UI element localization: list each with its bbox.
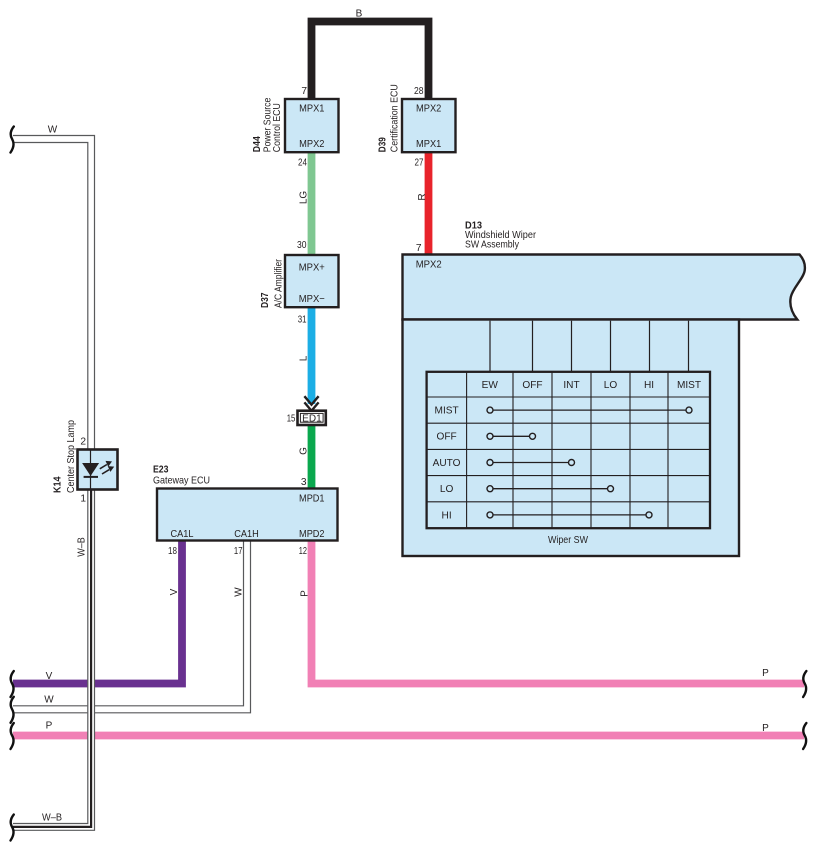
wire B black bus D44 pin7 to D39 pin28 — [312, 22, 429, 102]
svg-text:P: P — [46, 721, 53, 732]
svg-text:7: 7 — [301, 86, 307, 97]
svg-text:L: L — [299, 355, 310, 361]
svg-text:G: G — [299, 447, 310, 455]
svg-text:EW: EW — [482, 380, 499, 391]
svg-text:27: 27 — [415, 158, 424, 169]
svg-text:SW Assembly: SW Assembly — [465, 240, 520, 251]
svg-text:INT: INT — [563, 380, 579, 391]
svg-text:LG: LG — [299, 191, 310, 205]
svg-text:MPX2: MPX2 — [416, 260, 442, 271]
wire V E23 pin18 to left edge — [13, 540, 182, 684]
svg-text:MPX2: MPX2 — [299, 139, 325, 150]
wire W E23 pin17 to left edge — [13, 541, 247, 709]
svg-text:B: B — [356, 9, 363, 20]
svg-text:MIST: MIST — [435, 406, 459, 417]
svg-text:Wiper SW: Wiper SW — [548, 535, 588, 546]
table header labels — [482, 380, 701, 391]
break squiggle right P1 — [803, 671, 806, 697]
svg-text:W–B: W–B — [77, 537, 88, 557]
switch contact row HI — [487, 512, 652, 518]
svg-text:W: W — [234, 587, 245, 597]
table row labels — [433, 406, 461, 522]
connector D44 Power Source Control ECU — [285, 99, 339, 152]
switch contact row OFF — [487, 433, 536, 439]
svg-text:E23: E23 — [153, 464, 169, 476]
svg-text:HI: HI — [644, 380, 654, 391]
break squiggle left V — [11, 671, 14, 697]
break squiggle left W-B — [11, 815, 14, 841]
connector D39 Certification ECU — [402, 99, 456, 152]
svg-text:Certification ECU: Certification ECU — [390, 84, 401, 152]
svg-text:17: 17 — [234, 546, 243, 557]
svg-text:30: 30 — [297, 240, 307, 251]
svg-text:K14: K14 — [52, 476, 64, 493]
svg-text:Gateway ECU: Gateway ECU — [153, 476, 210, 487]
svg-text:MIST: MIST — [677, 380, 701, 391]
wire LG D44 pin24 to D37 pin30 — [308, 150, 316, 257]
svg-text:CA1H: CA1H — [234, 529, 259, 540]
wire R D39 pin27 to D13 pin7 — [425, 150, 433, 257]
connector D37 A/C Amplifier — [285, 255, 339, 307]
switch contact row MIST — [487, 407, 692, 413]
chevron arrows into ED1 — [304, 396, 318, 404]
svg-text:HI: HI — [442, 510, 452, 521]
svg-text:MPX2: MPX2 — [416, 104, 442, 115]
LED symbol in K14 — [82, 463, 99, 476]
wire G ED1 to E23 pin3 — [308, 424, 316, 490]
svg-text:AUTO: AUTO — [433, 458, 461, 469]
svg-text:7: 7 — [416, 243, 422, 254]
svg-text:P: P — [762, 668, 769, 679]
break squiggle right P2 — [803, 723, 806, 749]
svg-text:A/C Amplifier: A/C Amplifier — [274, 259, 285, 308]
connector E23 Gateway ECU — [157, 489, 338, 541]
svg-text:P: P — [300, 590, 311, 597]
svg-text:P: P — [762, 723, 769, 734]
internal connector lines to wiper switch — [490, 321, 689, 372]
svg-text:ED1: ED1 — [302, 413, 322, 424]
break squiggle left W top — [11, 127, 14, 153]
svg-text:18: 18 — [168, 546, 177, 557]
svg-text:D37: D37 — [259, 292, 271, 308]
connector K14 Center Stop Lamp — [78, 450, 118, 490]
svg-text:V: V — [169, 588, 180, 595]
break squiggle left P — [11, 723, 14, 749]
wire P E23 pin12 to right edge — [312, 540, 805, 684]
svg-text:MPX−: MPX− — [299, 294, 325, 305]
svg-text:MPX+: MPX+ — [299, 263, 325, 274]
connector ED1 — [298, 411, 326, 425]
svg-text:24: 24 — [298, 158, 307, 169]
svg-text:MPX1: MPX1 — [416, 139, 442, 150]
svg-text:Center Stop Lamp: Center Stop Lamp — [66, 420, 77, 493]
svg-text:LO: LO — [604, 380, 618, 391]
svg-text:LO: LO — [440, 484, 454, 495]
wire L D37 pin31 to ED1 — [308, 305, 316, 404]
wire P full width bus — [13, 732, 804, 740]
svg-text:OFF: OFF — [522, 380, 542, 391]
svg-text:W–B: W–B — [42, 813, 62, 824]
component box D13 body — [403, 320, 740, 557]
svg-text:MPD2: MPD2 — [299, 529, 325, 540]
svg-text:OFF: OFF — [437, 432, 457, 443]
break squiggle left W — [11, 697, 14, 723]
switch contact row LO — [487, 486, 614, 492]
svg-text:MPD1: MPD1 — [299, 494, 325, 505]
svg-text:MPX1: MPX1 — [299, 104, 325, 115]
svg-text:12: 12 — [299, 546, 307, 557]
svg-text:W: W — [48, 125, 58, 136]
wire through K14 — [90, 450, 92, 489]
connector strip D13 with torn edge — [403, 255, 805, 320]
wiper switch table — [427, 372, 710, 528]
svg-text:CA1L: CA1L — [171, 529, 194, 540]
svg-text:15: 15 — [287, 413, 296, 424]
switch contact row AUTO — [487, 460, 575, 466]
svg-text:Power SourceControl ECU: Power SourceControl ECU — [263, 97, 284, 152]
svg-text:R: R — [417, 193, 428, 200]
svg-text:D44: D44 — [251, 136, 263, 152]
svg-text:2: 2 — [80, 437, 86, 448]
svg-text:D39: D39 — [377, 137, 389, 152]
svg-text:W: W — [44, 695, 54, 706]
svg-text:1: 1 — [80, 494, 86, 505]
svg-text:31: 31 — [298, 315, 307, 326]
svg-text:3: 3 — [301, 477, 307, 488]
svg-text:V: V — [46, 671, 53, 682]
wire W-B K14 pin1 to bottom left edge — [13, 489, 91, 827]
svg-text:28: 28 — [414, 86, 424, 97]
wire W left edge to K14 pin2 — [13, 139, 91, 450]
